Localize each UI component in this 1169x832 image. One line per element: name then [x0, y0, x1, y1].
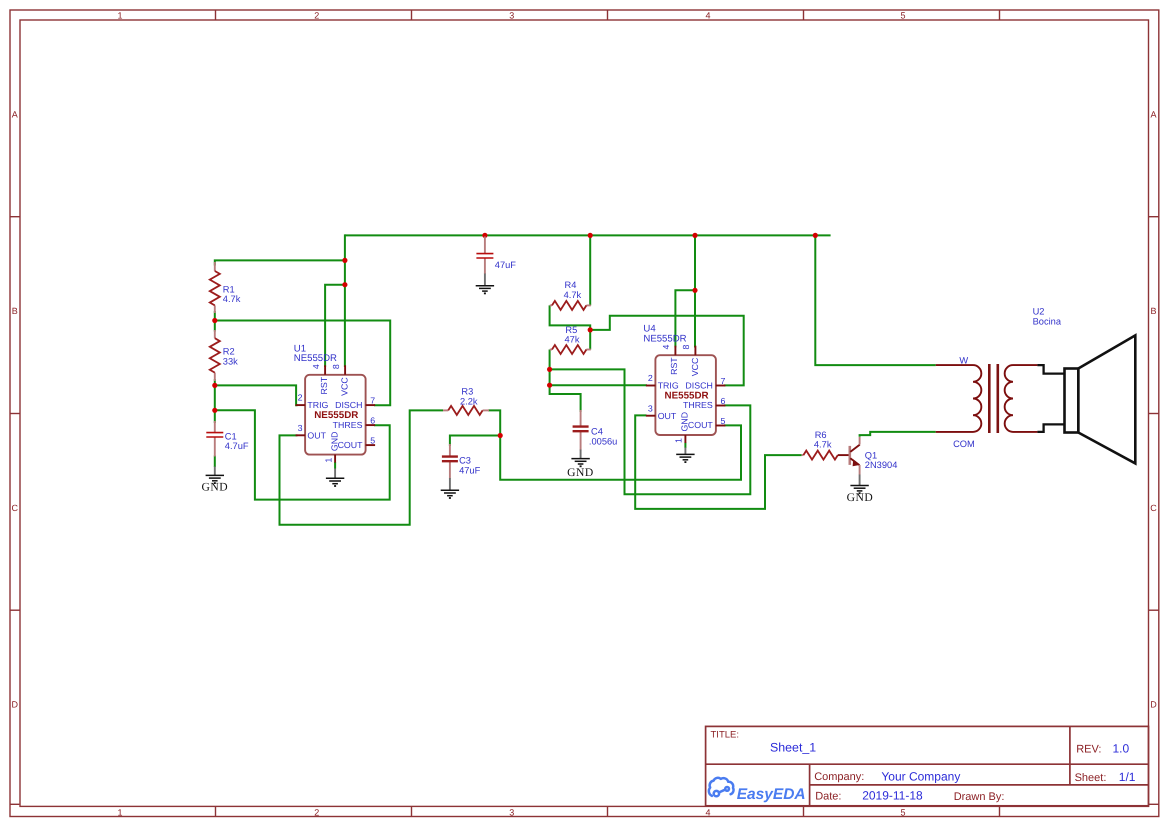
svg-text:W: W — [959, 355, 968, 365]
svg-text:2: 2 — [648, 373, 653, 383]
svg-text:EasyEDA: EasyEDA — [737, 786, 806, 803]
capacitor C2 47uF top — [484, 237, 486, 254]
wire Q1 collector to transformer COM — [860, 432, 936, 437]
svg-text:2: 2 — [314, 807, 319, 817]
svg-text:TITLE:: TITLE: — [711, 730, 740, 741]
transformer core — [988, 364, 991, 433]
svg-text:1/1: 1/1 — [1119, 770, 1136, 784]
resistor R3 — [443, 409, 448, 411]
svg-text:VCC: VCC — [340, 377, 350, 396]
svg-text:3: 3 — [298, 423, 303, 433]
capacitor C3 — [449, 444, 451, 457]
svg-text:5: 5 — [900, 807, 905, 817]
svg-text:4.7k: 4.7k — [223, 294, 241, 304]
wire U4 VCC riser to top bus — [694, 235, 696, 347]
svg-text:GND: GND — [201, 481, 228, 494]
wire C1 bottom to ground — [214, 456, 216, 468]
svg-text:Bocina: Bocina — [1033, 316, 1062, 326]
wire U4 pin1 to ground — [684, 443, 686, 449]
U1 pin 4 stub — [324, 365, 326, 375]
ground of C2 — [484, 274, 486, 286]
svg-text:R3: R3 — [461, 387, 473, 397]
svg-text:Company:: Company: — [814, 771, 864, 783]
svg-text:GND: GND — [680, 412, 690, 432]
svg-text:OUT: OUT — [658, 411, 677, 421]
transformer secondary winding — [1005, 365, 1038, 432]
svg-text:VCC: VCC — [690, 357, 700, 376]
svg-text:3: 3 — [648, 403, 653, 413]
U1 pin 5 stub — [366, 444, 376, 446]
svg-text:B: B — [12, 306, 18, 316]
svg-text:R6: R6 — [815, 430, 827, 440]
svg-text:C: C — [1150, 503, 1157, 513]
resistor R4 — [550, 304, 552, 306]
ground of U4 pin1 — [684, 448, 686, 455]
ground of U1 pin1 — [334, 469, 336, 479]
svg-text:A: A — [12, 110, 18, 120]
svg-text:Q1: Q1 — [865, 450, 877, 460]
R6 right lead to Q1 base — [838, 454, 849, 456]
svg-text:4: 4 — [705, 10, 710, 20]
svg-text:GND: GND — [567, 466, 594, 479]
speaker horn — [1078, 335, 1135, 463]
speaker terminal top — [1037, 365, 1064, 374]
U1 pin 7 stub — [366, 404, 376, 406]
speaker driver rectangle — [1065, 369, 1079, 433]
svg-text:C4: C4 — [591, 427, 603, 437]
svg-text:5: 5 — [900, 10, 905, 20]
wire U1 pin1 to ground — [334, 462, 336, 469]
frame row ticks left — [10, 216, 20, 218]
svg-text:GND: GND — [329, 432, 339, 452]
svg-text:C1: C1 — [225, 431, 237, 441]
wire top bus corner to transformer W — [815, 235, 935, 365]
svg-text:5: 5 — [370, 435, 375, 445]
svg-text:NE555DR: NE555DR — [643, 333, 686, 344]
U4 pin 7 stub — [716, 385, 726, 387]
svg-text:33k: 33k — [223, 356, 238, 366]
svg-text:A: A — [1150, 110, 1156, 120]
wire U1 VCC riser — [344, 234, 346, 367]
resistor R2 — [214, 330, 216, 338]
svg-text:8: 8 — [331, 364, 341, 369]
svg-text:RST: RST — [319, 376, 329, 394]
wire R4 left to R5 right junction — [550, 305, 591, 330]
wire U1 OUT to R3 left — [280, 410, 444, 524]
svg-text:THRES: THRES — [333, 420, 363, 430]
U1 pin 3 stub — [296, 434, 306, 436]
U4 pin 3 stub — [646, 415, 656, 417]
svg-text:D: D — [11, 700, 18, 710]
speaker terminal bottom — [1037, 424, 1064, 432]
svg-text:2.2k: 2.2k — [460, 397, 478, 407]
capacitor C1 — [214, 421, 216, 433]
svg-text:REV:: REV: — [1076, 744, 1101, 756]
wire R5 junction to U4 DISCH — [590, 316, 744, 386]
frame bottom corner ticks — [10, 803, 19, 805]
svg-text:.0056u: .0056u — [589, 437, 617, 447]
title block outline — [706, 726, 1149, 805]
svg-text:U2: U2 — [1033, 307, 1045, 317]
wire R5 tap to U4 THRES — [550, 369, 751, 494]
U1 pin 8 stub — [344, 365, 346, 375]
wire U4 RST to VCC riser — [675, 290, 696, 347]
svg-text:NE555DR: NE555DR — [294, 353, 337, 364]
svg-text:4.7k: 4.7k — [814, 440, 832, 450]
svg-text:8: 8 — [681, 345, 691, 350]
ground of Q1 — [859, 475, 861, 486]
svg-text:DISCH: DISCH — [335, 400, 362, 410]
svg-text:1: 1 — [117, 10, 122, 20]
svg-text:COM: COM — [953, 439, 975, 449]
svg-text:R5: R5 — [565, 325, 577, 335]
transistor Q1 2N3904 — [848, 446, 851, 465]
svg-text:C3: C3 — [459, 456, 471, 466]
svg-text:4: 4 — [705, 807, 710, 817]
U4 pin 6 stub — [716, 405, 726, 407]
U1 pin 6 stub — [366, 424, 376, 426]
wire VCC top bus — [345, 234, 831, 236]
U1 pin 2 stub — [296, 404, 306, 406]
svg-text:C: C — [11, 503, 18, 513]
svg-text:47uF: 47uF — [495, 260, 517, 270]
U1 pin 1 stub — [334, 455, 336, 463]
svg-text:6: 6 — [370, 415, 375, 425]
wire R4 right riser to top bus — [589, 235, 591, 305]
svg-text:6: 6 — [721, 396, 726, 406]
wire R1/R2 junction to U1 DISCH — [215, 321, 390, 406]
capacitor C4 — [580, 410, 582, 427]
resistor R6 — [802, 454, 804, 456]
U4 pin 4 stub — [674, 346, 676, 356]
svg-text:47k: 47k — [565, 335, 580, 345]
svg-text:1: 1 — [117, 807, 122, 817]
svg-text:4.7uF: 4.7uF — [225, 441, 249, 451]
svg-text:4.7k: 4.7k — [564, 290, 582, 300]
svg-text:3: 3 — [509, 807, 514, 817]
svg-text:TRIG: TRIG — [307, 400, 328, 410]
svg-text:Sheet_1: Sheet_1 — [770, 740, 816, 754]
svg-text:5: 5 — [721, 416, 726, 426]
svg-text:4: 4 — [311, 364, 321, 369]
svg-text:1: 1 — [674, 438, 684, 443]
wire R2 bottom to C1 through TRIG/THRES taps — [214, 379, 216, 423]
svg-text:7: 7 — [721, 376, 726, 386]
wire R5 tap to U4 TRIG — [550, 384, 647, 386]
wire R3 right to U4 COUT — [488, 410, 741, 479]
wire U4 OUT to R6 — [635, 415, 801, 509]
svg-text:B: B — [1150, 306, 1156, 316]
svg-text:THRES: THRES — [683, 400, 713, 410]
wire R3/C3 junction to C3 — [450, 436, 500, 447]
svg-text:R2: R2 — [223, 347, 235, 357]
frame row ticks right — [1149, 216, 1159, 218]
junction dots — [482, 233, 487, 238]
wire R1 bottom to R2 top — [214, 311, 216, 332]
svg-text:COUT: COUT — [688, 420, 714, 430]
wire U1 RST to VCC riser — [325, 285, 346, 367]
resistor R5 — [550, 349, 552, 351]
svg-text:R4: R4 — [565, 280, 577, 290]
svg-text:Drawn By:: Drawn By: — [954, 791, 1005, 803]
svg-text:OUT: OUT — [307, 431, 326, 441]
svg-text:Sheet:: Sheet: — [1075, 772, 1107, 784]
ground of C1 — [214, 467, 216, 476]
U4 pin 1 stub — [684, 435, 686, 443]
svg-text:1: 1 — [323, 458, 333, 463]
svg-text:2: 2 — [314, 10, 319, 20]
svg-text:GND: GND — [847, 491, 874, 504]
ground of C4 — [580, 450, 582, 459]
frame column ticks bottom — [215, 806, 217, 816]
svg-text:Date:: Date: — [815, 791, 841, 803]
wire C1 top junction to U1 THRES — [215, 410, 390, 499]
U4 pin 8 stub — [694, 346, 696, 356]
svg-text:R1: R1 — [223, 284, 235, 294]
ground of C3 — [449, 478, 451, 490]
U4 pin 2 stub — [646, 385, 656, 387]
svg-text:2: 2 — [298, 393, 303, 403]
EasyEDA logo cloud — [709, 778, 734, 797]
svg-text:RST: RST — [669, 357, 679, 375]
svg-text:Your Company: Your Company — [881, 769, 960, 783]
transformer U3 primary winding — [936, 365, 982, 432]
svg-text:47uF: 47uF — [459, 465, 481, 475]
op-amp-style IC body U4 NE555DR — [655, 355, 716, 435]
svg-text:COUT: COUT — [338, 440, 364, 450]
svg-text:NE555DR: NE555DR — [665, 390, 709, 401]
svg-text:D: D — [1150, 700, 1157, 710]
svg-text:4: 4 — [661, 345, 671, 350]
svg-text:DISCH: DISCH — [685, 380, 712, 390]
wire R2 bottom junction to U1 TRIG — [215, 385, 298, 405]
frame column ticks top — [215, 10, 217, 20]
svg-text:7: 7 — [370, 395, 375, 405]
wire R5 right lead up to junction — [589, 329, 591, 350]
svg-text:3: 3 — [509, 10, 514, 20]
resistor R1 — [214, 262, 216, 271]
svg-text:2N3904: 2N3904 — [865, 460, 898, 470]
svg-text:1.0: 1.0 — [1113, 741, 1130, 755]
svg-text:TRIG: TRIG — [658, 380, 679, 390]
U4 pin 5 stub — [716, 425, 726, 427]
wire R5 left to C4 top — [550, 350, 581, 413]
svg-text:2019-11-18: 2019-11-18 — [862, 789, 923, 803]
title block dividers — [706, 763, 1149, 765]
svg-text:NE555DR: NE555DR — [314, 410, 358, 421]
op-amp-style IC body U1 NE555DR — [305, 375, 366, 455]
wire R1 top to VCC riser — [215, 260, 345, 265]
